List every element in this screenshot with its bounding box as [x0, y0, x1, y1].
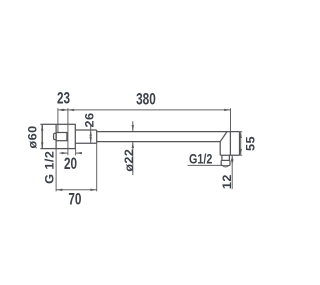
wire stub bottom dim 55 — [240, 154, 243, 156]
svg-text:12: 12 — [220, 174, 234, 189]
wire extension line shared 23/380/20 — [67, 108, 69, 155]
elbow right edge — [239, 132, 241, 156]
nipple shoulder — [221, 159, 230, 161]
wire dim 22 upper stub with arrow — [132, 121, 134, 131]
thread stub behind flange — [54, 133, 57, 139]
svg-text:ø60: ø60 — [26, 125, 40, 148]
arrow dim 70 left — [56, 189, 62, 191]
wire leader line G1/2 right — [188, 164, 224, 166]
wire dimension line 12 — [231, 155, 233, 189]
svg-text:G1/2: G1/2 — [189, 151, 212, 167]
wire arrow shaft 20 right — [76, 152, 82, 154]
svg-text:380: 380 — [136, 90, 156, 109]
svg-text:G 1/2: G 1/2 — [43, 151, 57, 184]
thread bottom — [221, 164, 230, 167]
arrow dim 12 top — [231, 155, 233, 161]
wire stub top dim 60 — [40, 123, 42, 125]
elbow left edge — [219, 142, 221, 156]
elbow inner edge — [229, 132, 231, 156]
svg-text:70: 70 — [68, 191, 81, 210]
thread tip arc — [223, 166, 229, 169]
wire extension line right of 380 — [230, 108, 232, 131]
wire extension line 70 right — [96, 143, 98, 191]
svg-text:ø22: ø22 — [122, 149, 136, 172]
svg-text:26: 26 — [83, 113, 97, 128]
nipple upper right — [228, 155, 230, 160]
wire dim 22 lower line — [132, 142, 134, 175]
arm tube bottom edge — [97, 141, 221, 143]
elbow bottom edge — [220, 154, 239, 156]
wire dimension line 26 — [90, 126, 92, 144]
svg-text:20: 20 — [64, 155, 77, 174]
wire extension line 20 right — [75, 149, 77, 156]
step edge — [96, 130, 98, 143]
arrow dim 22 down — [132, 125, 134, 131]
thick tube section bottom — [75, 142, 96, 144]
wire stub top dim 55 — [240, 131, 243, 133]
arm tube top edge / elbow top — [97, 131, 240, 133]
elbow chamfer — [220, 132, 227, 142]
wire arrow shaft 20 left — [60, 152, 68, 154]
divider wall plate / escutcheon — [55, 124, 57, 148]
wire top dimension line (23 + 380) — [58, 109, 231, 111]
arrow dim 26 top — [90, 130, 92, 136]
nipple upper left — [221, 155, 223, 160]
arrow 380 right — [224, 109, 230, 111]
arrow dim 55 top — [240, 132, 242, 138]
wire extension line 70 left — [55, 149, 57, 192]
arrow dim 55 bottom — [240, 149, 242, 155]
thread right — [229, 160, 231, 165]
arrow 23 right / 380 left (X) — [62, 109, 68, 111]
svg-text:23: 23 — [57, 90, 70, 109]
wall plate and escutcheon outer rectangle — [42, 124, 75, 148]
arrow dim 20 left — [62, 152, 68, 154]
arrow dim 60 top — [41, 124, 43, 130]
arrow dim 22 up — [132, 142, 134, 148]
svg-text:55: 55 — [244, 136, 258, 151]
arrow dim 26 bottom — [90, 137, 92, 143]
arrow dim 12 bottom — [231, 159, 233, 165]
arrow 23 left — [58, 109, 64, 111]
arrow dim 70 right — [90, 189, 96, 191]
wire dimension line 70 — [56, 189, 97, 191]
arrow dim 20 right — [76, 152, 82, 154]
wire dimension line diameter 60 — [41, 124, 43, 148]
wire dimension line 55 — [240, 132, 242, 156]
thick tube section top — [75, 129, 96, 131]
boss square on flange — [56, 133, 67, 141]
thread left — [220, 160, 222, 165]
wire stub bottom dim 60 — [40, 148, 42, 150]
arrow dim 60 bottom — [41, 142, 43, 148]
wire extension line left of 23 — [57, 108, 59, 132]
